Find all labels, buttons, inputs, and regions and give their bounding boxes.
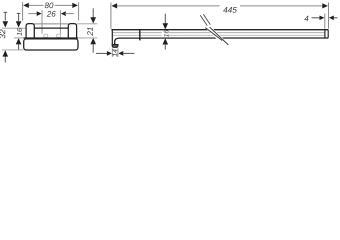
ext 4 left (324, 14, 326, 29)
swung arm upper stroke pair (break marks) (200, 15, 207, 25)
bar inner gray line 1 (112, 32, 325, 34)
label 21 (rotated) (87, 27, 93, 35)
swung arm crossing stroke left (205, 28, 222, 41)
arrow 445 right (322, 3, 328, 8)
label 32 (rotated) (0, 29, 5, 38)
extension line 26 right (59, 10, 61, 34)
right end cap (324, 30, 326, 38)
ext y23.8 to right (77, 23, 97, 25)
dim 16 (left) up arrow (16, 38, 22, 44)
dim 16 (bar) up arrow (163, 38, 169, 44)
dim 4 left arrow (points right) (312, 17, 321, 19)
dim 26 right shaft (65, 13, 74, 15)
dim 32 up arrow (3, 50, 9, 56)
band bottom dark line (24, 37, 79, 39)
bar top edge (light, between bumps) (34, 23, 68, 25)
left bump (26, 24, 34, 39)
swung arm crossing band (white occluder) (204, 27, 229, 45)
label 16 left (rotated) (17, 28, 22, 36)
dim 4 right arrow (points left) (329, 16, 334, 21)
dim 21 down arrow (92, 8, 94, 17)
dim 21 up arrow (90, 38, 96, 44)
extension line 80 left (22, 2, 24, 20)
bar bottom line y28 between bumps (34, 27, 68, 29)
bar inner gray line 2 (112, 34, 325, 36)
dim 32 down arrow (4, 12, 6, 21)
foot internal line (112, 44, 118, 46)
foot dim 14: extension lines (111, 48, 113, 57)
label 4 (304, 16, 308, 22)
arrow 26 left (points right) (37, 11, 42, 16)
bracket left face (111, 30, 113, 47)
label 80 (45, 3, 54, 9)
arrow 80 right (72, 3, 78, 8)
label 14 (rotated tiny) (113, 49, 118, 56)
extension line y37.9 (left of view) (14, 37, 24, 39)
dim 16 (left) down arrow (18, 13, 20, 21)
dim line 80 (28, 4, 44, 6)
faint screw marks (44, 34, 48, 37)
dim 16 (bar) down arrow (164, 14, 166, 24)
extension line 26 left (41, 10, 43, 34)
bracket vertical line (139, 30, 141, 41)
label 26 (47, 11, 56, 17)
bar top edge (111, 29, 328, 31)
label 445 (223, 7, 237, 13)
arrow 80 left (23, 3, 29, 8)
extension line 80 right (78, 2, 80, 20)
ext y37.9 to right (79, 37, 98, 39)
white halo + label 16 (162, 31, 169, 38)
ext 445 left (110, 3, 112, 29)
extension line y49.9 (bottom, to left) (2, 49, 24, 51)
dim line 445 (117, 5, 220, 7)
ext 445/4 right (328, 3, 330, 29)
extension line y28 (to left dims) (2, 27, 26, 29)
dim 26 left shaft (28, 13, 37, 15)
foot dim arrows (96, 52, 108, 54)
right bump (68, 24, 76, 39)
wall plate rounded rect (24, 39, 78, 50)
arrow 445 left (112, 3, 118, 8)
swung arm crossing stroke right (210, 27, 229, 45)
arrow 26 right (points left) (61, 11, 66, 16)
bar bottom edge with left rounded corner (115, 38, 329, 45)
foot bottom (112, 45, 118, 48)
